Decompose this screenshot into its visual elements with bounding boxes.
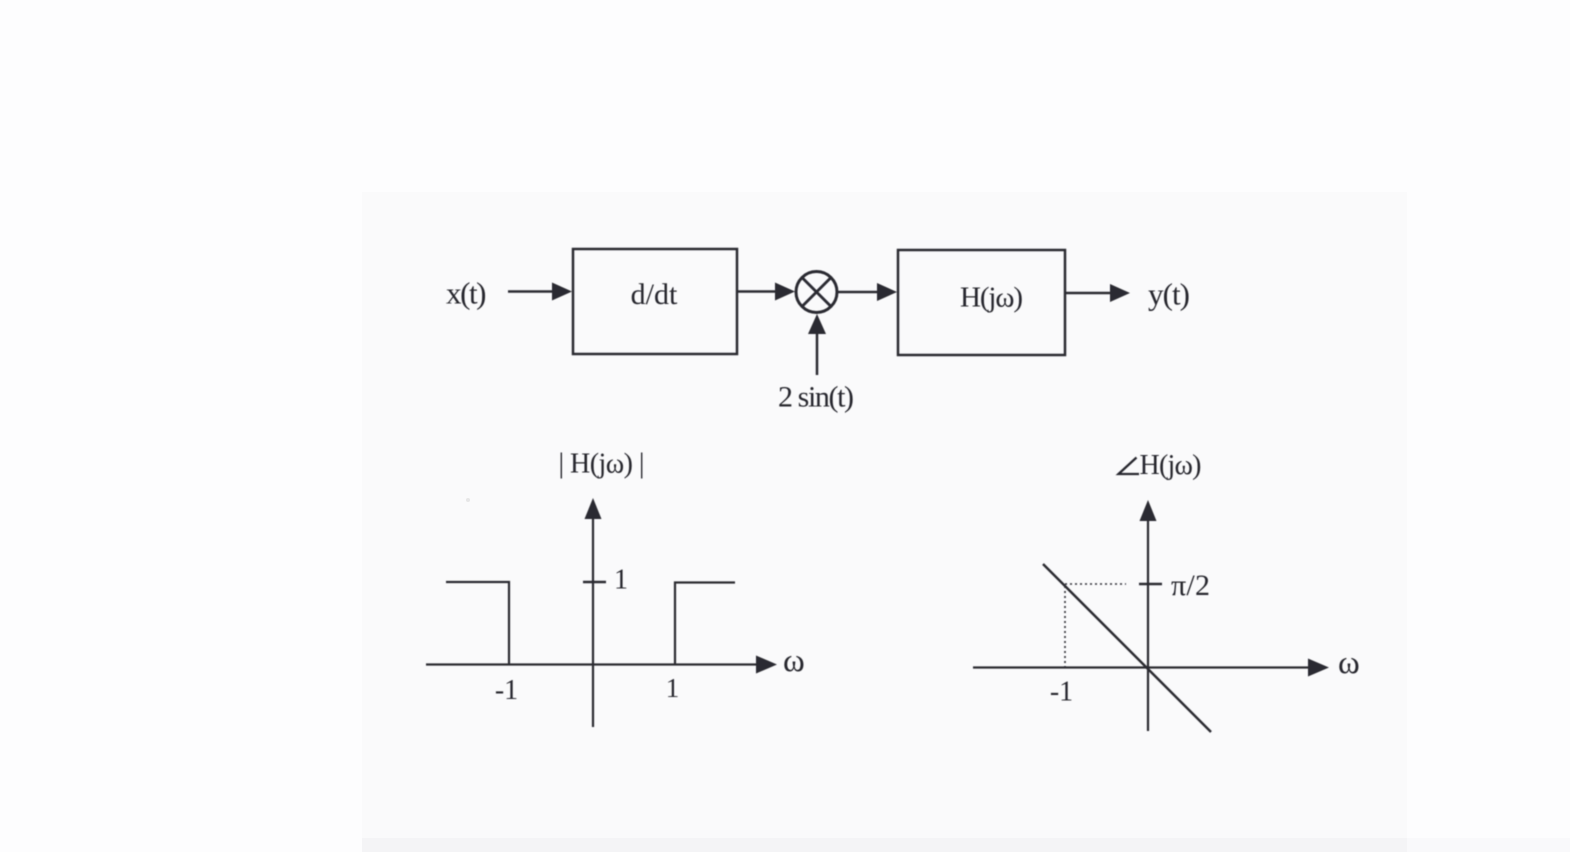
svg-text:2 sin(t): 2 sin(t) bbox=[778, 381, 854, 414]
svg-text:ω: ω bbox=[1338, 645, 1360, 681]
block d/dt bbox=[573, 249, 737, 354]
magnitude axis label ω bbox=[783, 643, 805, 679]
wire x(t) to d/dt with arrowhead bbox=[508, 283, 572, 301]
phase axis label ω bbox=[1338, 645, 1360, 681]
dotted guide vertical at ω=-1 bbox=[1064, 586, 1066, 667]
svg-text:π/2: π/2 bbox=[1171, 569, 1210, 602]
svg-text:-1: -1 bbox=[495, 675, 518, 706]
wire d/dt to multiplier with arrowhead bbox=[737, 283, 795, 301]
magnitude plot title |H(jω)| bbox=[559, 449, 645, 480]
svg-text:d/dt: d/dt bbox=[631, 278, 678, 311]
dotted guide horizontal at π/2 bbox=[1065, 583, 1126, 585]
magnitude response right segment (ω &gt; 1) bbox=[675, 583, 735, 665]
magnitude plot vertical axis with arrowhead bbox=[585, 498, 602, 727]
svg-text:H(jω): H(jω) bbox=[1140, 450, 1202, 481]
phase tick label -1 bbox=[1050, 677, 1073, 708]
svg-text:1: 1 bbox=[666, 673, 680, 703]
svg-text:y(t): y(t) bbox=[1148, 277, 1190, 312]
carrier input arrow into multiplier bbox=[808, 314, 826, 375]
multiplier M1 (circled ×) bbox=[796, 272, 837, 313]
label 2 sin(t) bbox=[778, 381, 854, 414]
magnitude plot horizontal axis with arrowhead bbox=[426, 656, 777, 674]
svg-text:-1: -1 bbox=[1050, 677, 1073, 708]
node y(t) output label bbox=[1148, 277, 1190, 312]
phase tick π/2 on vertical axis bbox=[1139, 569, 1210, 602]
magnitude response left segment (ω &lt; -1) bbox=[446, 582, 509, 664]
svg-text:x(t): x(t) bbox=[446, 276, 487, 311]
magnitude tick 1 on vertical axis bbox=[583, 565, 628, 596]
magnitude tick label 1 bbox=[666, 673, 680, 703]
svg-text:1: 1 bbox=[614, 565, 628, 596]
svg-text:| H(jω) |: | H(jω) | bbox=[559, 449, 645, 480]
magnitude tick label -1 bbox=[495, 675, 518, 706]
block H(jω) bbox=[898, 250, 1065, 355]
phase plot vertical axis with arrowhead bbox=[1140, 500, 1157, 731]
svg-text:H(jω): H(jω) bbox=[960, 282, 1023, 314]
node x(t) input label bbox=[446, 276, 487, 311]
phase plot horizontal axis with arrowhead bbox=[973, 659, 1329, 677]
wire H(jω) to y(t) with arrowhead bbox=[1065, 284, 1130, 302]
wire multiplier to H(jω) with arrowhead bbox=[837, 283, 897, 301]
phase plot title ∠H(jω) bbox=[1119, 450, 1202, 481]
phase response sloped line bbox=[1043, 564, 1211, 732]
svg-text:ω: ω bbox=[783, 643, 805, 679]
